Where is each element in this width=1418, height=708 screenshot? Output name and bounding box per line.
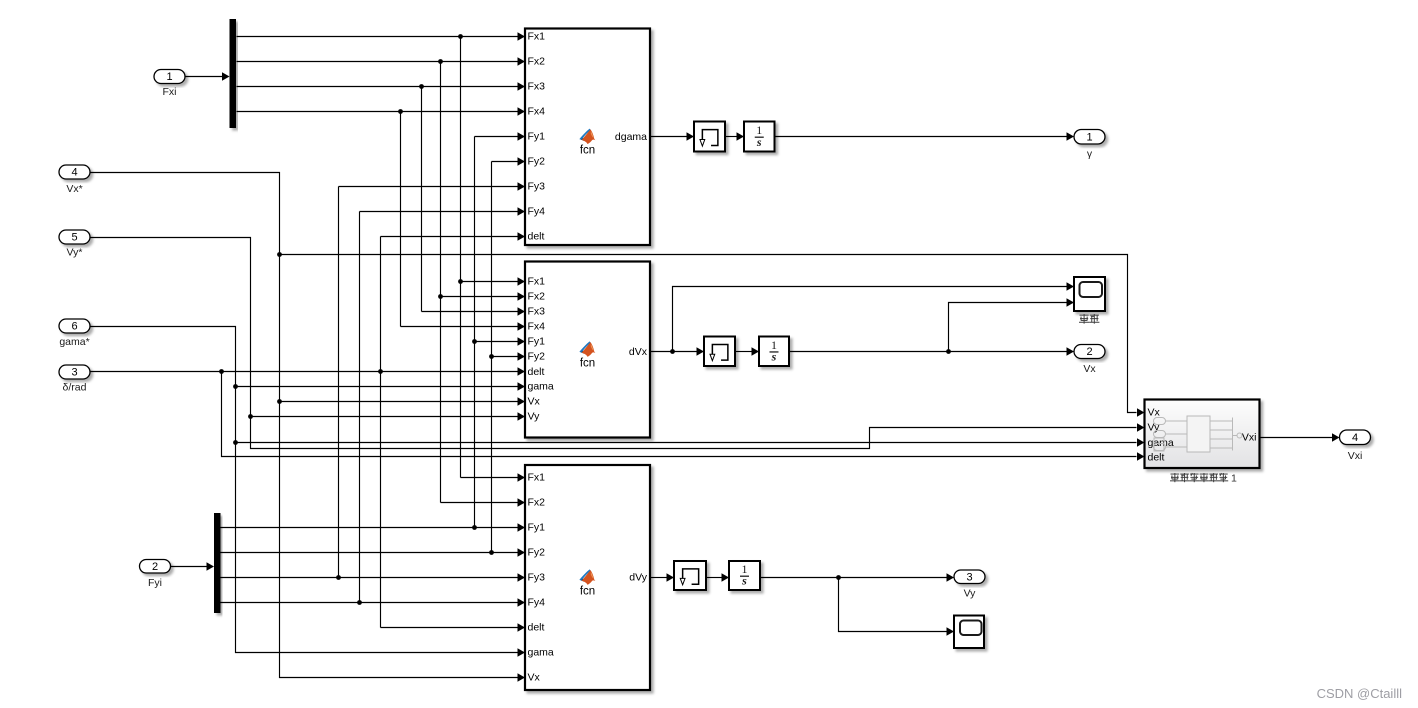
wrap-to-zero block W3 [674,561,706,590]
svg-text:Vx: Vx [528,672,541,684]
svg-text:Fx1: Fx1 [528,31,546,43]
svg-text:s: s [771,350,777,364]
wire fcn3 Fx1 stub [461,473,526,482]
wire fcn1 Fy4 stub [360,207,526,216]
svg-text:Fx4: Fx4 [528,321,546,333]
input port 4 Vx* [59,165,90,195]
wire Fx3 vertical [421,87,423,312]
svg-text:Fx4: Fx4 [528,106,546,118]
wire Vy branch to scope [839,578,955,636]
wire Fy4 vertical [359,212,361,603]
svg-text:dgama: dgama [615,131,647,143]
wire Fx1 row [237,32,526,41]
svg-text:Fx2: Fx2 [528,291,546,303]
svg-text:1: 1 [166,71,172,83]
svg-text:Fy2: Fy2 [528,547,546,559]
wire Fy1 vertical [474,137,476,528]
wire fcn2 Fx1 stub [461,277,526,286]
input port 5 Vy* [59,230,90,259]
wire Fy3 vertical [338,187,340,578]
svg-text:Fy2: Fy2 [528,156,546,168]
watermark CSDN [1317,686,1403,701]
svg-text:s: s [741,574,747,588]
scope block 车速 [1074,277,1105,311]
wire Fx4 row [237,107,526,116]
wrap-to-zero block W2 [704,337,735,367]
wire wrap3 to integrator3 [707,573,730,582]
output port 4 Vxi [1340,430,1371,462]
svg-text:Fy4: Fy4 [528,597,546,609]
svg-text:Fx1: Fx1 [528,472,546,484]
svg-text:Vy*: Vy* [67,247,83,259]
integrator 1/s block I1 [744,122,775,152]
svg-text:delt: delt [1148,452,1165,464]
wire Vy* from port [91,238,1145,449]
svg-text:Fy2: Fy2 [528,351,546,363]
svg-text:6: 6 [71,321,77,333]
wire Vx* to subsystem [280,255,1145,417]
svg-text:1: 1 [1086,131,1092,143]
wire Fy1 row [221,523,526,532]
MATLAB Function block U1 (dgama) [525,29,650,246]
svg-text:Fy3: Fy3 [528,181,546,193]
scope block S2 [954,616,984,649]
svg-text:4: 4 [71,167,77,179]
integrator 1/s block I2 [759,337,789,367]
demux D1 for Fxi [230,19,237,128]
wire Vxi out [1260,433,1340,442]
svg-text:Fxi: Fxi [163,86,177,98]
wire Fyi to demux [171,562,215,571]
svg-text:Vx: Vx [1148,407,1161,419]
svg-text:Vx: Vx [528,396,541,408]
subsystem block 车轮纵向速度1 [1145,400,1260,469]
wire dgama out [651,132,695,141]
svg-text:3: 3 [71,367,77,379]
wire Vx* from port [91,173,526,682]
input port 3 delta/rad [59,365,90,394]
wire Fy2 row [221,548,526,557]
svg-text:γ: γ [1087,148,1093,160]
output port 3 Vy [954,570,985,600]
svg-text:4: 4 [1352,432,1358,444]
wire Fy3 row [221,573,526,582]
wire dVx out [651,347,705,356]
svg-text:3: 3 [966,571,972,583]
demux D2 for Fyi [214,513,221,613]
wire fcn1 delt stub [381,232,526,241]
svg-text:Fy1: Fy1 [528,336,546,348]
svg-text:Fy4: Fy4 [528,206,546,218]
svg-text:dVx: dVx [629,346,648,358]
input port 6 gama* [59,319,90,348]
svg-text:δ/rad: δ/rad [63,382,87,394]
wire dVy out [651,573,675,582]
wire fcn1 Fy3 stub [339,182,526,191]
svg-text:Fy1: Fy1 [528,522,546,534]
wire Fxi to demux [186,72,230,81]
svg-text:2: 2 [1086,346,1092,358]
subsystem label 车轮纵向速度1 [1170,473,1237,485]
svg-text:Fx3: Fx3 [528,81,546,93]
wire fcn2 Vy stub [251,412,526,421]
svg-text:Fx3: Fx3 [528,306,546,318]
svg-text:dVy: dVy [629,572,647,584]
wire fcn2 Fy2 stub [492,352,526,361]
svg-text:fcn: fcn [580,145,595,157]
svg-text:2: 2 [152,561,158,573]
svg-text:delt: delt [528,366,545,378]
wire integrator1 to gamma port [775,132,1075,141]
svg-text:Fx2: Fx2 [528,497,546,509]
svg-text:gama*: gama* [59,336,89,348]
wire Fx4 vertical [400,112,402,327]
svg-text:fcn: fcn [580,357,595,369]
wire Vx branch to scope [949,298,1075,351]
wire Fy4 row [221,598,526,607]
wire Fx3 row [237,82,526,91]
wire delt vertical [380,237,382,628]
svg-text:Vxi: Vxi [1348,450,1363,462]
MATLAB Function block U3 (dVy) [525,465,650,690]
svg-text:gama: gama [528,381,554,393]
svg-text:Vy: Vy [964,588,977,600]
input port 2 Fyi [140,560,171,590]
input port 1 Fxi [154,70,185,99]
wire gama* to subsystem [236,438,1145,447]
wire integrator3 to Vy port [761,573,955,582]
wire fcn1 Fy1 stub [475,132,526,141]
scope label 车速 [1079,314,1099,324]
wire Fx2 vertical [440,62,442,503]
wire dVx branch to scope [673,282,1075,351]
svg-text:5: 5 [71,232,77,244]
wire integrator2 to Vx port [790,347,1075,356]
MATLAB Function block U2 (dVx) [525,262,650,438]
svg-text:Fx1: Fx1 [528,276,546,288]
wire wrap2 to integrator2 [736,347,760,356]
wire delta/rad row [91,367,526,376]
svg-text:s: s [756,135,762,149]
svg-text:1: 1 [1231,473,1237,485]
wrap-to-zero block W1 [694,122,725,152]
svg-text:Fy1: Fy1 [528,131,546,143]
svg-text:delt: delt [528,231,545,243]
svg-text:Vx*: Vx* [66,183,82,195]
wire fcn2 gama stub [236,382,526,391]
svg-text:Vxi: Vxi [1242,432,1257,444]
svg-text:Vx: Vx [1083,363,1096,375]
wire fcn2 Vx stub [280,397,526,406]
output port 1 gamma [1074,130,1105,161]
wire gama* from port [91,327,526,657]
svg-text:Fy3: Fy3 [528,572,546,584]
svg-text:Fyi: Fyi [148,577,162,589]
wire fcn2 Fx3 stub [422,307,526,316]
wire Fx2 row [237,57,526,66]
output port 2 Vx [1074,345,1105,376]
svg-text:Fx2: Fx2 [528,56,546,68]
wire fcn3 Fx2 stub [441,498,526,507]
integrator 1/s block I3 [729,561,760,590]
svg-text:Vy: Vy [528,411,541,423]
wire delta to subsystem [222,372,1145,461]
wire fcn1 Fy2 stub [492,157,526,166]
wire fcn2 Fx2 stub [441,292,526,301]
wire fcn2 Fx4 stub [401,322,526,331]
svg-text:CSDN @Ctailll: CSDN @Ctailll [1317,686,1403,701]
wire fcn3 delt stub [381,623,526,632]
svg-text:gama: gama [528,647,554,659]
wire fcn2 Fy1 stub [475,337,526,346]
wire junction dots [219,34,951,605]
wire Fy2 vertical [491,162,493,553]
wire Fx1 vertical [460,37,462,478]
wire wrap1 to integrator1 [726,132,745,141]
svg-text:fcn: fcn [580,585,595,597]
svg-text:delt: delt [528,622,545,634]
